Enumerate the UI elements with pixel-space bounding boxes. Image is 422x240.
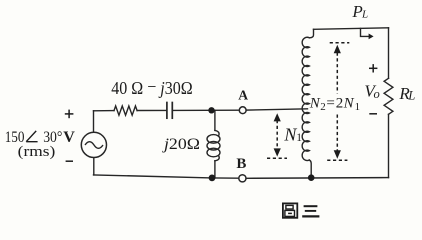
svg-text:2: 2 (336, 95, 344, 111)
svg-text:V: V (63, 129, 75, 146)
svg-text:o: o (374, 87, 380, 101)
svg-text:=: = (326, 95, 334, 111)
svg-text:1: 1 (296, 132, 302, 144)
svg-text:B: B (236, 156, 246, 172)
svg-text:N: N (343, 95, 355, 111)
svg-text:j20Ω: j20Ω (162, 135, 200, 153)
svg-text:40 Ω − j30Ω: 40 Ω − j30Ω (111, 77, 193, 99)
svg-text:L: L (361, 9, 368, 21)
svg-text:2: 2 (320, 101, 326, 113)
svg-text:L: L (407, 89, 415, 103)
svg-text:(rms): (rms) (18, 144, 56, 160)
svg-text:N: N (309, 95, 321, 111)
svg-text:A: A (238, 88, 248, 103)
svg-text:1: 1 (355, 101, 361, 113)
